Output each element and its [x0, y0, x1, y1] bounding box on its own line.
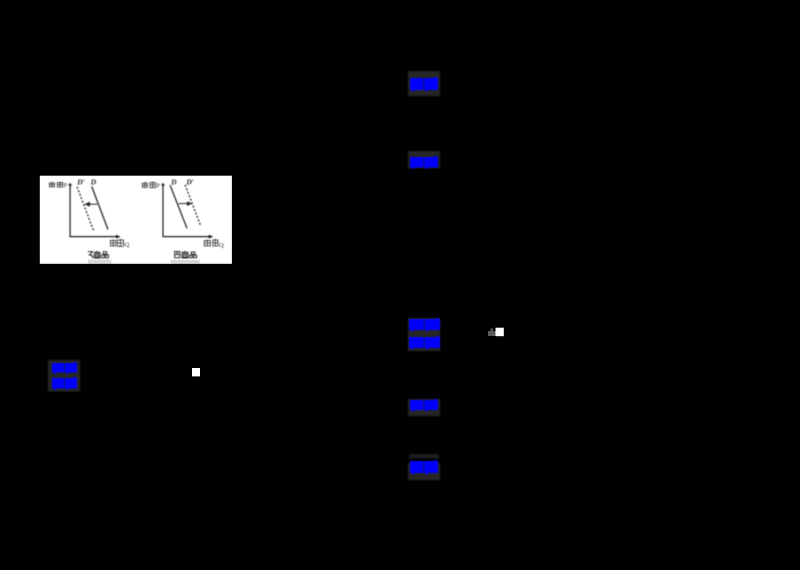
- svg-text:D′: D′: [185, 177, 194, 186]
- svg-text:P: P: [64, 182, 68, 189]
- svg-text:D′: D′: [76, 177, 85, 186]
- svg-text:D: D: [170, 178, 177, 187]
- svg-text:Q: Q: [125, 242, 130, 249]
- svg-text:P: P: [156, 183, 160, 190]
- svg-text:Q: Q: [219, 242, 224, 249]
- svg-text:D: D: [90, 177, 97, 186]
